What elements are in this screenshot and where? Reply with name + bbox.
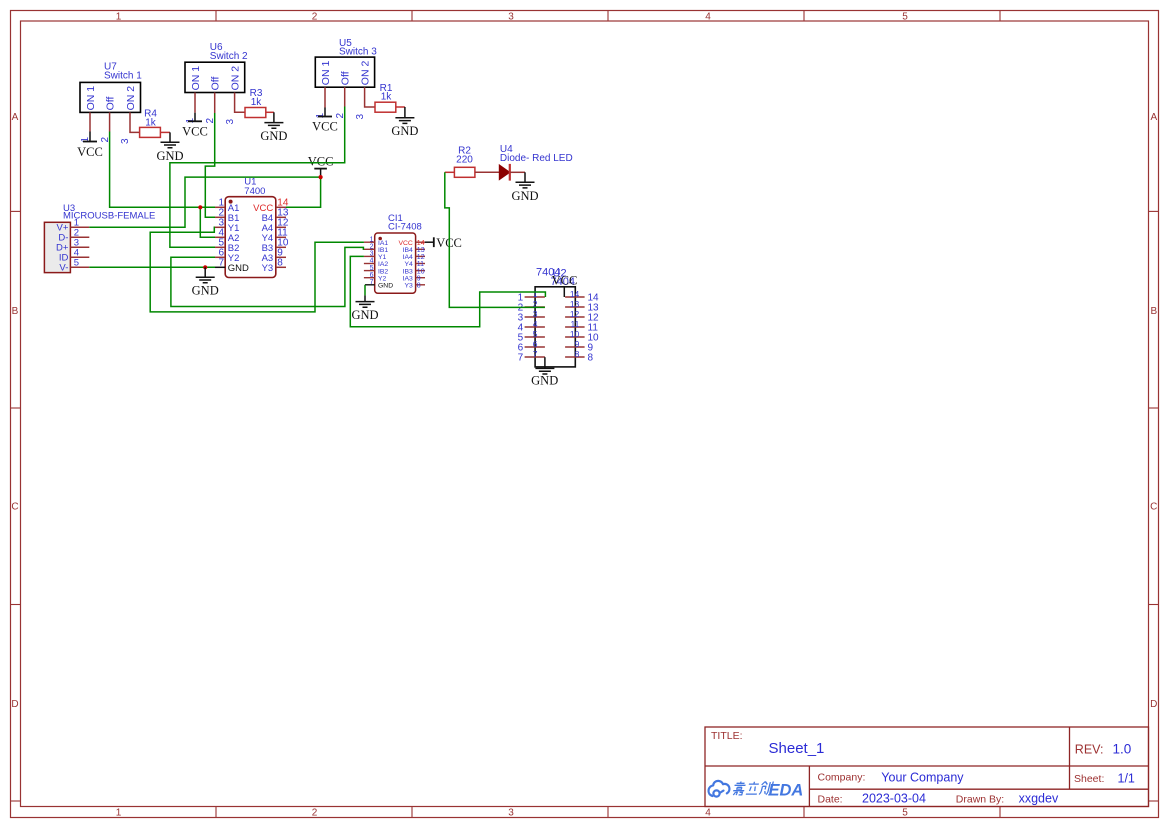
svg-text:Y3: Y3 [404, 283, 413, 290]
svg-text:1.0: 1.0 [1113, 742, 1132, 757]
svg-text:3: 3 [225, 119, 236, 125]
switch U6 pin numbers [185, 118, 236, 125]
wire VCC rail to V+ [89, 177, 320, 227]
gnd symbol R4 [156, 132, 183, 162]
svg-text:Y4: Y4 [404, 261, 413, 268]
LED U4 labels [500, 144, 573, 164]
svg-text:1: 1 [533, 289, 538, 299]
svg-text:B: B [1150, 306, 1157, 317]
vcc flag U5 pin1 [318, 108, 332, 117]
svg-text:3: 3 [355, 114, 366, 120]
svg-text:5: 5 [533, 329, 538, 339]
svg-text:Date:: Date: [818, 793, 843, 805]
wire U1 Y2 to CI1 IB1 [171, 247, 364, 306]
svg-text:1k: 1k [251, 97, 263, 108]
gnd symbol U1 pin7 [192, 267, 219, 297]
wire U7 pin2 to U1 A1 [110, 132, 215, 208]
svg-text:9: 9 [417, 275, 421, 282]
logo EDA [769, 782, 804, 800]
IC U1 right pin numbers [277, 197, 289, 268]
IC CI1 right pin stubs [416, 242, 425, 285]
LED U4 diode [499, 164, 525, 181]
svg-text:GND: GND [391, 124, 418, 138]
resistor R1 labels [380, 83, 393, 103]
switch U7 labels [104, 62, 142, 82]
svg-text:2: 2 [312, 12, 318, 23]
IC U1 labels [244, 177, 265, 198]
IC U2 right pin stubs [565, 297, 585, 357]
svg-text:7: 7 [218, 257, 224, 268]
IC U2 outer right pin numbers [588, 293, 600, 364]
svg-text:Your Company: Your Company [881, 770, 964, 784]
svg-text:D: D [1150, 699, 1157, 710]
svg-text:ON 2: ON 2 [230, 66, 242, 91]
svg-text:9: 9 [575, 339, 580, 349]
svg-text:Switch 2: Switch 2 [210, 51, 248, 62]
switch U7 pin names [85, 86, 137, 111]
switch U5 pin numbers [315, 113, 366, 120]
IC CI1 right pin numbers [417, 240, 425, 290]
svg-text:11: 11 [417, 261, 424, 268]
svg-text:A: A [1150, 112, 1157, 123]
gnd symbol U2 [531, 357, 558, 387]
vcc flag CI1 pin14 [425, 236, 462, 250]
svg-text:Switch 1: Switch 1 [104, 71, 142, 82]
IC U1 pin7 stub [215, 266, 225, 268]
svg-text:4: 4 [705, 808, 711, 819]
svg-text:220: 220 [456, 154, 473, 165]
svg-text:GND: GND [192, 284, 219, 298]
connector U3 pin numbers [74, 217, 79, 268]
svg-text:GND: GND [531, 373, 558, 387]
IC U1 right pin stubs [276, 207, 286, 267]
title block label TITLE [711, 730, 743, 742]
svg-text:CI-7408: CI-7408 [388, 222, 422, 233]
svg-text:4: 4 [705, 12, 711, 23]
svg-text:7400: 7400 [244, 186, 265, 197]
IC U2 left pin stubs [525, 297, 545, 357]
switch U6 body [185, 62, 245, 92]
svg-text:GND: GND [156, 149, 183, 163]
svg-text:13: 13 [417, 247, 425, 254]
svg-text:1k: 1k [381, 92, 393, 103]
IC U1 left pin stubs [215, 207, 225, 257]
svg-text:VCC: VCC [398, 240, 412, 247]
svg-text:8: 8 [575, 349, 580, 359]
svg-text:1/1: 1/1 [1118, 771, 1135, 785]
svg-text:VCC: VCC [182, 124, 208, 138]
resistor R2 labels [456, 146, 473, 166]
IC CI1 right pin names [398, 240, 413, 290]
svg-text:1: 1 [116, 12, 122, 23]
svg-text:6: 6 [533, 339, 538, 349]
IC U1 left pin numbers [218, 197, 224, 268]
svg-text:C: C [11, 502, 18, 513]
svg-text:Off: Off [340, 71, 352, 85]
switch U7 body [80, 82, 141, 112]
svg-text:4: 4 [370, 258, 374, 265]
gnd symbol R3 [260, 112, 287, 143]
svg-text:IA1: IA1 [378, 240, 388, 247]
IC U1 left pin names [228, 203, 249, 274]
frame column numbers bottom [116, 808, 909, 819]
switch U5 pin names [320, 61, 372, 86]
svg-text:IB2: IB2 [378, 268, 388, 275]
vcc text U6 [182, 124, 208, 138]
title block date row [818, 792, 1059, 806]
svg-text:8: 8 [277, 257, 283, 268]
frame row letters right [1150, 112, 1157, 710]
svg-text:EDA: EDA [769, 782, 804, 800]
IC CI1 7408 body [375, 233, 416, 293]
svg-text:Y1: Y1 [378, 254, 387, 261]
svg-text:D: D [11, 699, 18, 710]
IC U1 right pin names [253, 203, 273, 274]
svg-text:13: 13 [570, 299, 580, 309]
svg-text:12: 12 [417, 254, 425, 261]
switch U5 labels [339, 38, 377, 58]
svg-text:14: 14 [417, 240, 425, 247]
svg-text:8: 8 [588, 353, 594, 364]
IC CI1 pin7 stub [365, 284, 375, 286]
svg-text:xxgdev: xxgdev [1019, 792, 1059, 806]
svg-text:11: 11 [570, 319, 579, 329]
IC CI1 left pin names [378, 240, 393, 290]
gnd symbol R1 [391, 107, 418, 138]
svg-text:3: 3 [533, 309, 538, 319]
resistor R4 labels [144, 109, 157, 129]
svg-text:3: 3 [370, 251, 374, 258]
svg-text:2023-03-04: 2023-03-04 [862, 792, 926, 806]
junction V- gnd [203, 265, 207, 269]
junction A1 [198, 205, 202, 209]
svg-text:ON 1: ON 1 [85, 86, 97, 111]
svg-text:Company:: Company: [818, 772, 866, 784]
connector U3 body [44, 222, 70, 272]
IC CI1 left pin stubs [364, 242, 375, 278]
IC CI1 labels [388, 213, 422, 233]
svg-text:10: 10 [417, 268, 425, 275]
switch U5 pin stubs [325, 87, 375, 107]
switch U5 body [315, 57, 374, 87]
logo text jia [732, 782, 746, 796]
svg-text:Off: Off [210, 77, 222, 91]
vcc flag center [308, 155, 334, 178]
switch U7 pin numbers [80, 137, 131, 145]
svg-text:GND: GND [228, 263, 249, 274]
IC U2 inner right pin names [570, 289, 580, 359]
wire V- to U1 GND [89, 266, 215, 268]
switch U6 pin names [190, 66, 242, 91]
resistor R4 [140, 127, 170, 137]
svg-text:10: 10 [570, 329, 580, 339]
svg-text:ON 2: ON 2 [125, 86, 137, 111]
vcc text U7 [77, 145, 103, 159]
svg-text:7: 7 [518, 353, 524, 364]
vcc text U2 [552, 273, 578, 287]
gnd symbol CI1 [351, 295, 378, 322]
svg-text:8: 8 [417, 283, 421, 290]
svg-text:2: 2 [370, 244, 374, 251]
connector U3 pin names [56, 223, 69, 274]
svg-text:7: 7 [370, 279, 374, 286]
svg-text:14: 14 [570, 289, 580, 299]
svg-text:IB4: IB4 [403, 247, 413, 254]
svg-text:1: 1 [370, 236, 374, 243]
svg-text:2: 2 [312, 808, 318, 819]
svg-text:3: 3 [508, 12, 514, 23]
svg-text:4: 4 [533, 319, 538, 329]
svg-text:TITLE:: TITLE: [711, 730, 743, 742]
frame column numbers top [116, 12, 909, 23]
svg-text:5: 5 [74, 257, 79, 268]
resistor R2 [445, 167, 500, 177]
IC U1 7400 body [225, 197, 276, 278]
logo text chuang [759, 782, 773, 795]
wire U1 Y1 to CI1 IA1 [150, 227, 364, 312]
svg-text:3: 3 [508, 808, 514, 819]
svg-text:1: 1 [116, 808, 122, 819]
svg-text:Sheet:: Sheet: [1074, 773, 1104, 785]
svg-text:B: B [12, 306, 19, 317]
switch U7 pin stubs [90, 112, 140, 132]
logo text li [746, 782, 760, 794]
wire CI1 Y1 to U2 pin1 [350, 256, 545, 326]
svg-text:C: C [1150, 502, 1157, 513]
resistor R3 [245, 108, 274, 118]
svg-text:Y3: Y3 [262, 263, 274, 274]
IC U2 inner left pin names [533, 289, 538, 359]
svg-text:IA2: IA2 [378, 261, 388, 268]
logo cloud icon [709, 781, 730, 797]
svg-text:GND: GND [378, 283, 393, 290]
junction VCC [319, 175, 323, 179]
svg-text:V-: V- [59, 263, 68, 274]
wire U6 pin2 to U1 B1 [205, 113, 215, 217]
svg-text:Drawn By:: Drawn By: [956, 793, 1004, 805]
svg-text:5: 5 [902, 808, 908, 819]
wire VCC to U1 pin14 [286, 177, 321, 207]
svg-text:IB3: IB3 [403, 268, 413, 275]
IC U2 outer left pin numbers [518, 293, 524, 364]
svg-text:7: 7 [533, 349, 538, 359]
switch U6 labels [210, 42, 248, 62]
title block company row [818, 770, 1135, 785]
IC CI1 left pin numbers [370, 236, 374, 286]
svg-text:ON 2: ON 2 [360, 61, 372, 86]
svg-text:VCC: VCC [308, 155, 334, 169]
svg-text:Diode- Red LED: Diode- Red LED [500, 153, 573, 164]
svg-text:VCC: VCC [552, 273, 578, 287]
svg-text:ON 1: ON 1 [190, 66, 202, 91]
svg-text:Switch 3: Switch 3 [339, 47, 377, 58]
svg-text:REV:: REV: [1075, 743, 1104, 757]
IC U2 7404 labels [536, 267, 567, 280]
title block sheet name [769, 740, 825, 757]
svg-text:GND: GND [260, 129, 287, 143]
svg-text:Y2: Y2 [378, 275, 387, 282]
svg-text:1k: 1k [145, 117, 157, 128]
svg-text:IA3: IA3 [403, 275, 413, 282]
title block lines [705, 727, 1149, 807]
switch U6 pin stubs [195, 93, 245, 114]
gnd symbol U4 [511, 172, 538, 203]
vcc flag U7 pin1 [83, 132, 97, 142]
IC U2 value text [551, 276, 575, 288]
svg-text:GND: GND [351, 308, 378, 322]
wire R2 to U2 pin2 [445, 172, 545, 307]
gnd flag CI1 pin7 wire [364, 285, 366, 296]
svg-text:3: 3 [120, 138, 131, 144]
connector U3 labels [63, 203, 155, 221]
wire U5 pin2 to U1 B2 [170, 107, 345, 248]
svg-text:IA4: IA4 [403, 254, 413, 261]
IC U2 7404 body [535, 287, 575, 367]
svg-text:ON 1: ON 1 [320, 61, 332, 86]
svg-text:5: 5 [370, 265, 374, 272]
svg-text:A: A [12, 112, 19, 123]
svg-text:IB1: IB1 [378, 247, 388, 254]
svg-text:GND: GND [511, 189, 538, 203]
frame row letters left [11, 112, 18, 710]
wire branch to U1 A2 [200, 207, 215, 237]
svg-text:12: 12 [570, 309, 580, 319]
svg-text:5: 5 [902, 12, 908, 23]
vcc flag U6 pin1 [188, 113, 202, 122]
svg-text:VCC: VCC [77, 145, 103, 159]
connector U3 pin stubs [70, 227, 89, 267]
svg-text:VCC: VCC [312, 120, 338, 134]
svg-text:Sheet_1: Sheet_1 [769, 740, 825, 757]
resistor R1 [375, 102, 405, 112]
vcc text U5 [312, 120, 338, 134]
title block REV [1075, 742, 1131, 757]
svg-text:6: 6 [370, 272, 374, 279]
resistor R3 labels [250, 88, 263, 108]
svg-text:Off: Off [105, 97, 117, 111]
